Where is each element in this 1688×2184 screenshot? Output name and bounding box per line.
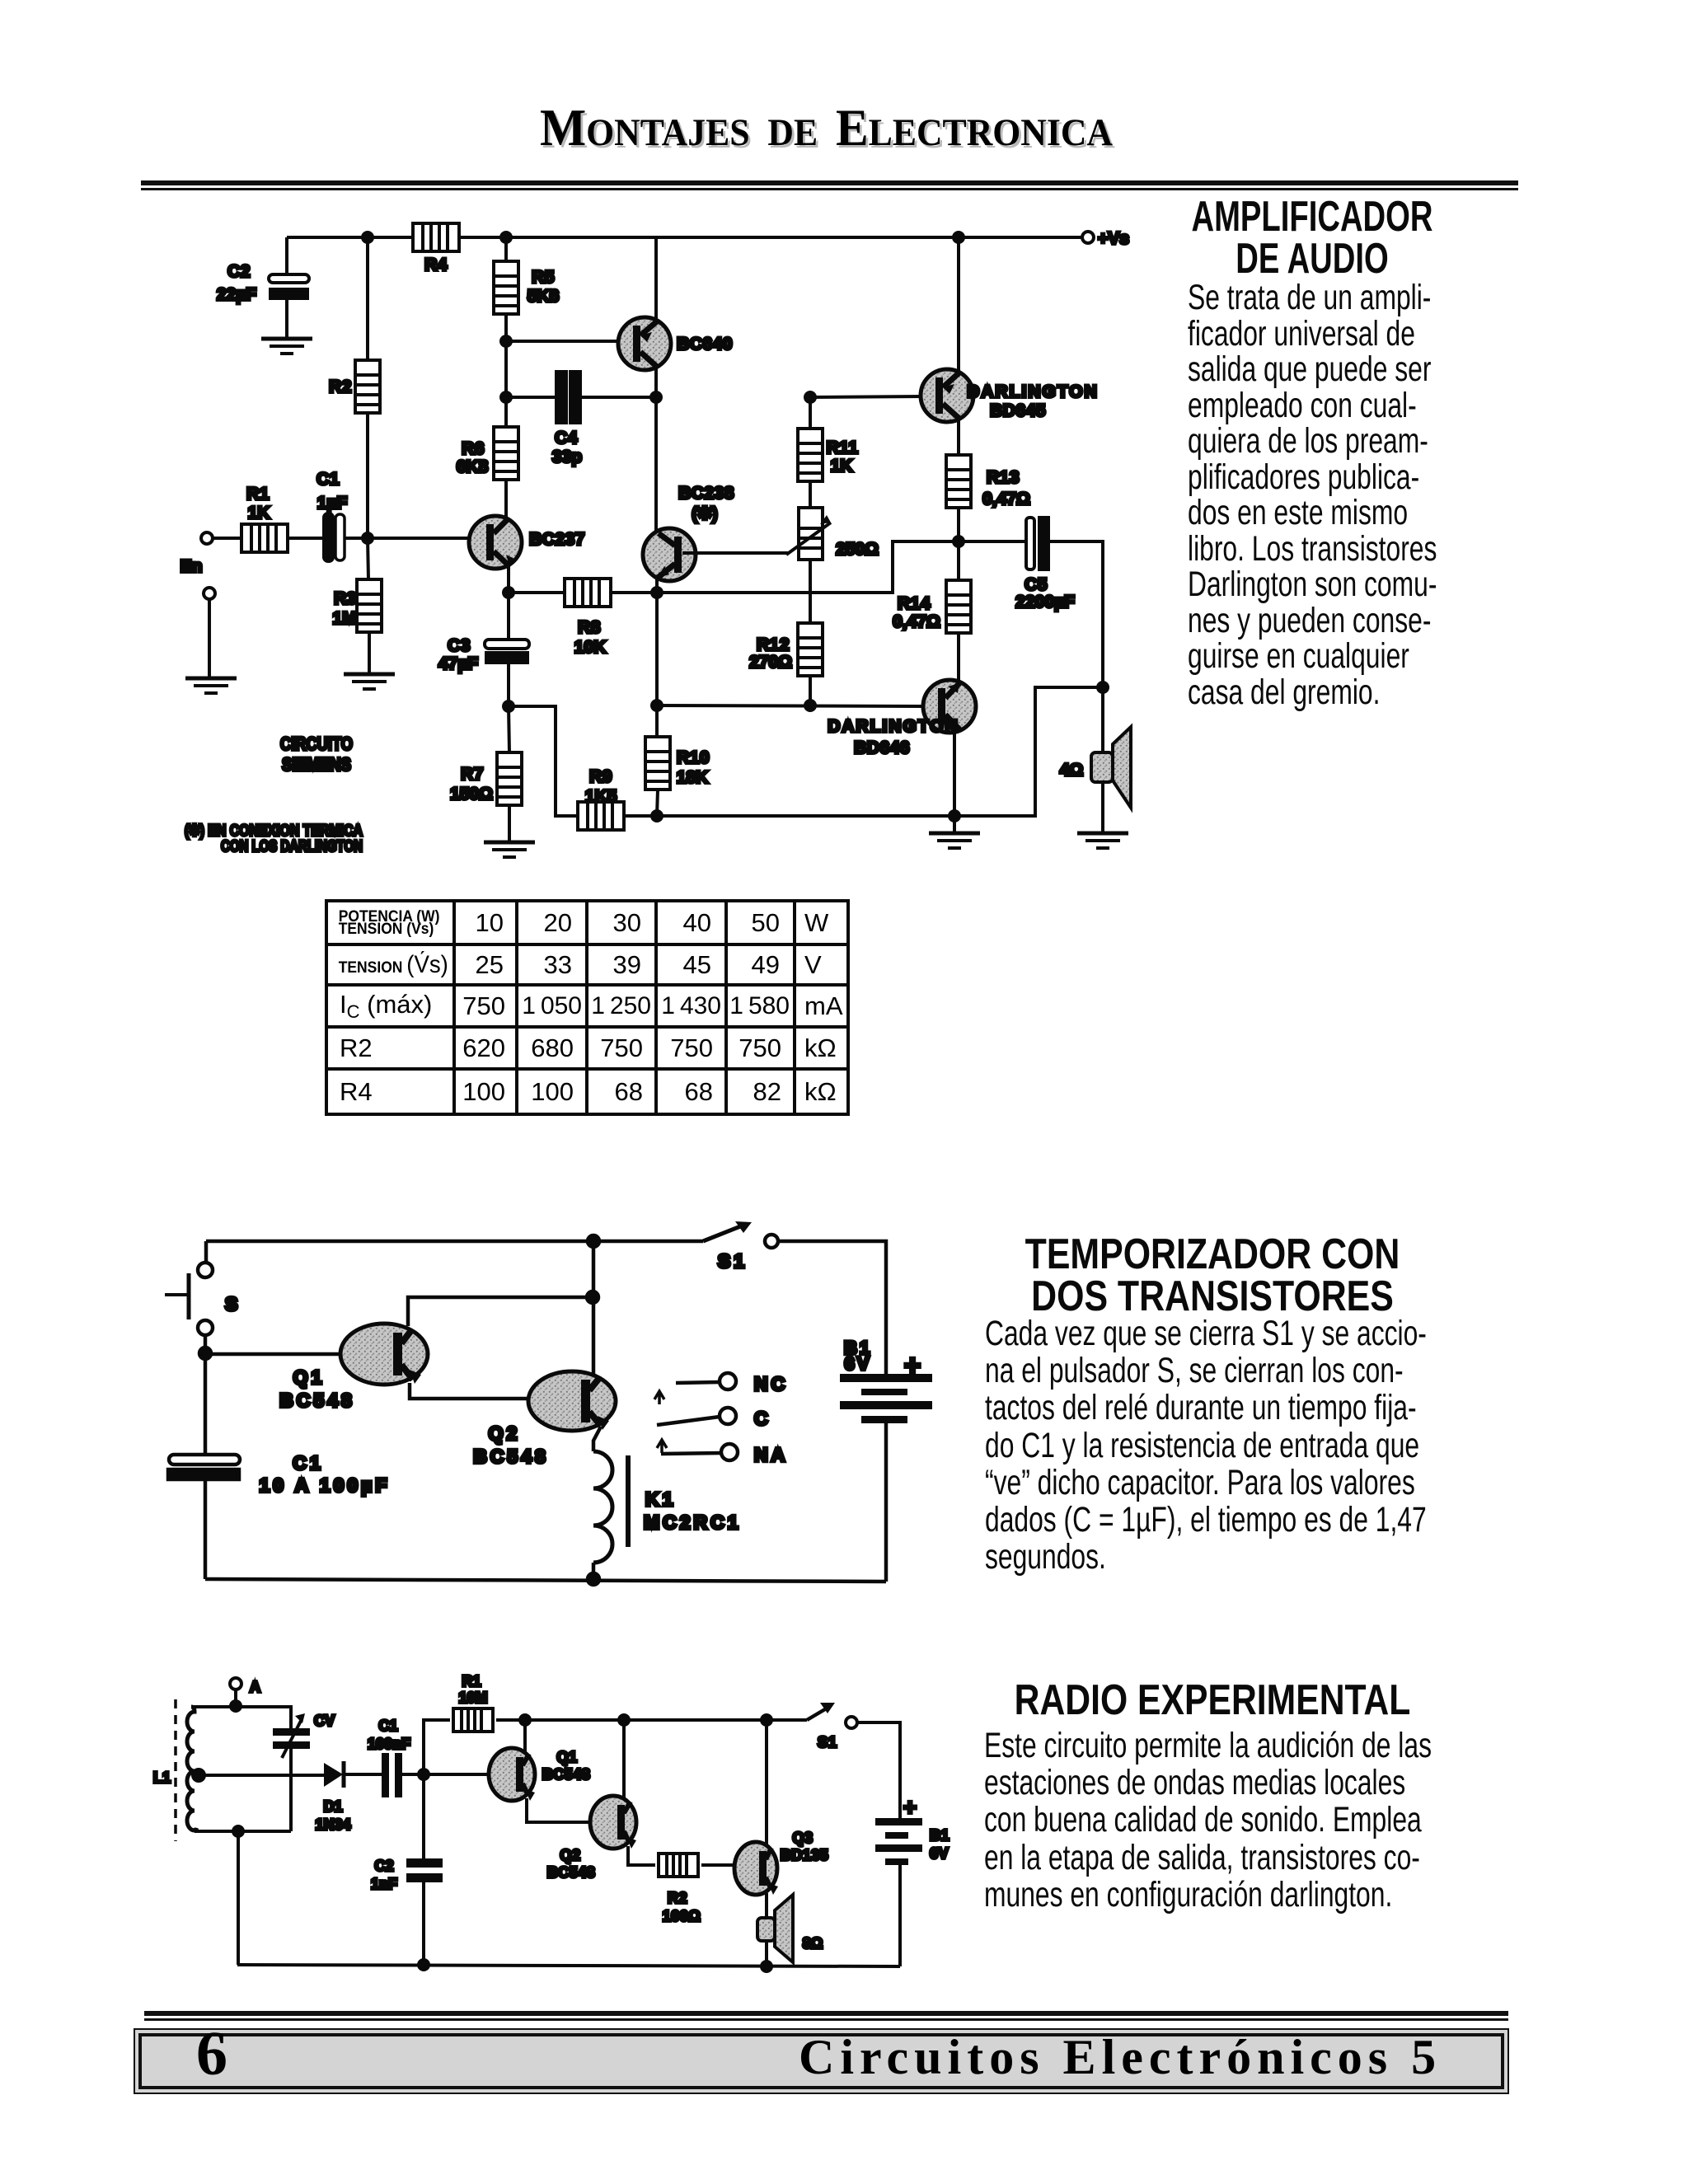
node R5 top bbox=[501, 232, 511, 242]
node Q1 base tap bbox=[199, 1347, 211, 1359]
node R12 bus left bbox=[652, 701, 662, 710]
svg-text:1nF: 1nF bbox=[371, 1876, 397, 1892]
capacitor C1 electrolytic bbox=[168, 1452, 390, 1496]
wire Q2 emitter to R2 bbox=[628, 1846, 655, 1865]
inductor L1 bbox=[153, 1699, 198, 1841]
wire tank top bbox=[191, 1707, 291, 1728]
data table potencia/tension bbox=[325, 899, 850, 1116]
ground (BD646) bbox=[929, 833, 980, 848]
resistor R4 bbox=[413, 223, 459, 274]
node tank bottom bbox=[233, 1826, 243, 1836]
transistor BC640 bbox=[618, 237, 733, 397]
resistor R7 bbox=[450, 752, 522, 805]
wire node to BC237 base bbox=[368, 537, 470, 540]
wire top node down to Q2 collector bbox=[592, 1241, 596, 1376]
wire BD646 collector bbox=[953, 730, 956, 832]
wire R3 to ground bbox=[368, 632, 371, 673]
wire C5 to speaker node bbox=[1048, 541, 1103, 687]
svg-text:Q2: Q2 bbox=[560, 1847, 580, 1863]
terminal +Vs bbox=[1082, 229, 1129, 248]
contact arrow upper bbox=[654, 1391, 664, 1404]
ground (speaker) bbox=[1077, 833, 1128, 848]
contact arrow lower bbox=[657, 1440, 667, 1453]
svg-text:10M: 10M bbox=[458, 1690, 487, 1706]
resistor R1 10M bbox=[453, 1673, 493, 1732]
wire En to R1 bbox=[213, 537, 241, 540]
wire R13 to node bbox=[957, 508, 960, 541]
node C3 bottom bbox=[504, 701, 513, 711]
wire left rail lower bbox=[204, 1353, 208, 1455]
wire Q1 emitter to Q2 base bbox=[410, 1383, 529, 1399]
node timer top bbox=[588, 1235, 599, 1247]
node BC640 collector bbox=[651, 392, 661, 402]
wire Q1 collector feedback bbox=[408, 1297, 593, 1326]
variable capacitor CV bbox=[273, 1713, 335, 1758]
label circuito siemens bbox=[280, 733, 353, 775]
trimmer 250 ohm bbox=[786, 508, 879, 560]
wire R12 to bus bbox=[809, 676, 812, 705]
wire bottom rail bbox=[205, 1579, 886, 1582]
wire BC238 emitter down bbox=[655, 578, 659, 593]
svg-text:CV: CV bbox=[314, 1713, 335, 1729]
diode D1 1N34 bbox=[315, 1761, 350, 1833]
wire timer top rail bbox=[206, 1240, 703, 1244]
wire R5 to node bbox=[504, 314, 508, 341]
node R11 top bbox=[805, 392, 815, 402]
svg-text:1N34: 1N34 bbox=[315, 1816, 350, 1833]
ground (R3) bbox=[344, 674, 395, 689]
wire R10 to bus bbox=[657, 790, 658, 816]
resistor R14 bbox=[893, 580, 971, 633]
node feedback bbox=[587, 1291, 598, 1303]
resistor R2 bbox=[329, 360, 380, 413]
node bottom rail bbox=[588, 1573, 599, 1585]
svg-text:BC548: BC548 bbox=[542, 1766, 591, 1783]
ground (C2) bbox=[261, 339, 312, 354]
wire R2 to node bbox=[366, 414, 369, 538]
wire R1 to C1 bbox=[288, 537, 324, 540]
resistor R13 bbox=[946, 455, 1030, 509]
terminal En input bbox=[181, 532, 213, 576]
svg-text:L1: L1 bbox=[153, 1769, 171, 1786]
svg-text:6V: 6V bbox=[930, 1845, 949, 1862]
svg-text:S1: S1 bbox=[818, 1734, 837, 1750]
wire relay to bottom rail bbox=[592, 1563, 596, 1579]
battery B1 6V radio bbox=[875, 1794, 949, 1865]
transistor Q3 BD135 bbox=[734, 1720, 828, 1895]
wire bus to BD646 base bbox=[657, 705, 924, 706]
ground (R7) bbox=[484, 842, 535, 857]
radio heading bbox=[1014, 1680, 1410, 1722]
wire R11 to trimmer bbox=[809, 481, 812, 508]
svg-text:+: + bbox=[903, 1794, 917, 1820]
svg-text:C1: C1 bbox=[378, 1718, 397, 1734]
node R12 bottom bbox=[805, 701, 815, 710]
wire down to R10 bbox=[655, 593, 659, 736]
capacitor C4 bbox=[552, 372, 582, 466]
wire S1 to battery bbox=[778, 1241, 886, 1374]
node output bbox=[954, 537, 964, 546]
wire node to R6 bbox=[504, 397, 508, 427]
svg-text:B1: B1 bbox=[930, 1827, 949, 1844]
relay contact C bbox=[657, 1408, 771, 1429]
wire D1 to C1 bbox=[345, 1773, 382, 1776]
svg-text:8Ω: 8Ω bbox=[803, 1935, 823, 1952]
wire R6 to BC237 bbox=[504, 480, 508, 518]
wire top rail radio bbox=[525, 1718, 807, 1722]
wire node to R7 bbox=[509, 706, 509, 752]
wire node to C4 bbox=[506, 396, 556, 399]
resistor R12 bbox=[749, 623, 823, 676]
svg-text:100Ω: 100Ω bbox=[663, 1908, 701, 1924]
capacitor C1 100nF bbox=[368, 1718, 410, 1797]
terminal A antenna bbox=[230, 1678, 260, 1706]
svg-text:BD135: BD135 bbox=[781, 1847, 829, 1863]
timer heading bbox=[1025, 1234, 1400, 1318]
wire emitter to R8 bbox=[509, 591, 565, 594]
node BD645 emitter rail bbox=[954, 232, 964, 242]
wire node to BC640 base bbox=[506, 340, 620, 343]
switch S1 bbox=[703, 1221, 778, 1272]
capacitor C2 1nF bbox=[371, 1774, 443, 1965]
resistor R1 bbox=[241, 485, 288, 552]
wire trimmer to R12 bbox=[809, 560, 812, 623]
footer rules bbox=[144, 2011, 1508, 2016]
node top rail R2 bbox=[363, 232, 373, 242]
ground (En) bbox=[185, 678, 237, 693]
transistor Q2 BC548 bbox=[547, 1720, 636, 1881]
wire BC238 base to 250 ohm wiper bbox=[682, 551, 789, 555]
node detector bbox=[419, 1769, 429, 1779]
svg-text:C2: C2 bbox=[374, 1858, 393, 1874]
capacitor C3 bbox=[438, 636, 529, 706]
svg-text:R2: R2 bbox=[668, 1890, 687, 1906]
wire node to C5 bbox=[959, 540, 1026, 543]
svg-text:Q1: Q1 bbox=[556, 1749, 577, 1765]
speaker 8 ohm bbox=[757, 1895, 823, 1962]
wire C3 branch bbox=[507, 593, 510, 640]
resistor R9 bbox=[578, 767, 624, 830]
node base BC237 bbox=[363, 533, 373, 543]
relay coil K1 bbox=[593, 1451, 742, 1563]
wire node to R14 bbox=[957, 541, 960, 580]
page number 6 bbox=[196, 2022, 227, 2085]
svg-text:D1: D1 bbox=[323, 1798, 342, 1815]
transistor BD646 darlington bbox=[828, 680, 976, 757]
svg-text:BC548: BC548 bbox=[547, 1864, 596, 1881]
battery B1 6V bbox=[840, 1338, 932, 1423]
terminal En lower bbox=[204, 588, 215, 599]
node speaker bottom bbox=[762, 1961, 771, 1971]
node C4 tap bbox=[501, 392, 511, 402]
node BC640 base bbox=[501, 336, 511, 346]
wire Q2 emitter to relay bbox=[593, 1427, 601, 1451]
resistor R5 bbox=[494, 261, 559, 314]
wire R8 to node bbox=[611, 591, 657, 594]
transistor BD645 darlington bbox=[921, 237, 1099, 455]
wire C4 to node bbox=[580, 396, 656, 399]
wire node down bbox=[504, 341, 508, 397]
resistor R2 100 ohm bbox=[659, 1854, 701, 1924]
wire CV down bbox=[289, 1749, 293, 1831]
wire R14 to BD646 bbox=[957, 633, 960, 682]
svg-text:R1: R1 bbox=[462, 1673, 481, 1690]
svg-text:100nF: 100nF bbox=[368, 1736, 410, 1752]
wire node right to R9 bbox=[509, 706, 578, 816]
wire tank bottom bbox=[195, 1830, 291, 1833]
wire feedback y719 bbox=[657, 541, 959, 593]
node Q3 collector top bbox=[762, 1715, 771, 1725]
wire button to node bbox=[204, 1335, 208, 1353]
node C2 bottom bbox=[419, 1960, 429, 1970]
resistor R8 bbox=[565, 579, 611, 657]
wire R1 to Q1 collector node bbox=[496, 1718, 525, 1722]
wire speaker to bottom rail bbox=[765, 1941, 768, 1966]
wire R9 to node bbox=[624, 814, 657, 818]
wire top rail bbox=[287, 236, 414, 239]
wire node down to R11 bbox=[809, 397, 812, 429]
wire node up to R1 bbox=[424, 1720, 450, 1774]
capacitor C1 bbox=[316, 470, 347, 561]
node antenna tap bbox=[231, 1701, 241, 1711]
wire BC237 emitter bbox=[507, 566, 510, 593]
transistor Q2 BC548 bbox=[473, 1371, 616, 1467]
node R8 right bbox=[652, 588, 662, 598]
node bottom bus left bbox=[652, 811, 662, 821]
wire bottom bus bbox=[657, 687, 1103, 816]
node emitter BC237 bbox=[504, 588, 513, 598]
wire node to R3 bbox=[368, 538, 368, 579]
relay contact NA bbox=[661, 1444, 788, 1465]
footer title bbox=[799, 2032, 1442, 2082]
svg-text:A: A bbox=[250, 1679, 260, 1695]
wire C1 to node bbox=[345, 537, 368, 540]
wire R2 branch bbox=[366, 237, 369, 359]
node Q1 collector bbox=[520, 1715, 530, 1725]
resistor R10 bbox=[645, 737, 710, 790]
wire tank bottom to rail bbox=[237, 1831, 240, 1965]
wire tap to D1 bbox=[195, 1774, 324, 1777]
resistor R6 bbox=[457, 427, 518, 480]
footer bar bbox=[134, 2028, 1509, 2094]
capacitor C2 bbox=[217, 237, 309, 337]
PAGE HEADER bbox=[540, 97, 1113, 158]
node L1 tap bbox=[193, 1769, 204, 1781]
wire left rail top bbox=[204, 1241, 209, 1263]
transistor Q1 BC548 bbox=[489, 1720, 590, 1801]
wire node to BD645 base bbox=[810, 396, 923, 397]
switch S1 radio bbox=[807, 1703, 857, 1750]
capacitor C5 bbox=[1015, 518, 1075, 612]
wire battery to bottom rail bbox=[898, 1865, 902, 1966]
wire Q3 emitter to speaker bbox=[765, 1893, 768, 1918]
transistor BC237 bbox=[469, 516, 585, 569]
label nota termica bbox=[185, 823, 363, 855]
wire Q1 emitter to Q2 base bbox=[527, 1798, 591, 1822]
wire rail to R5 bbox=[504, 237, 508, 261]
node bus BD646 bbox=[949, 811, 959, 821]
svg-text:Q3: Q3 bbox=[792, 1830, 813, 1846]
wire R2 to Q3 base bbox=[701, 1863, 736, 1867]
wire node to Q1 base bbox=[205, 1352, 341, 1357]
amplifier body text bbox=[1188, 280, 1437, 710]
resistor R11 bbox=[798, 429, 858, 481]
node Q2 collector top bbox=[619, 1715, 629, 1725]
amplifier heading bbox=[1191, 196, 1433, 280]
wire C1 to node bbox=[402, 1773, 490, 1776]
transistor BC238 bbox=[643, 397, 734, 581]
resistor R3 bbox=[332, 579, 382, 632]
pushbutton S bbox=[165, 1263, 239, 1335]
transistor Q1 BC548 bbox=[279, 1324, 428, 1411]
wire R7 to ground bbox=[508, 805, 511, 841]
node speaker top bbox=[1098, 682, 1108, 692]
timer body text bbox=[985, 1315, 1427, 1576]
wire bottom rail radio bbox=[237, 1965, 900, 1966]
wire lower terminal to ground bbox=[208, 599, 211, 677]
relay contact NC bbox=[676, 1373, 788, 1394]
wire S1 to battery bbox=[857, 1722, 900, 1818]
radio body text bbox=[984, 1727, 1432, 1914]
wire battery to bottom rail bbox=[884, 1423, 889, 1582]
wire C1 to bottom rail bbox=[204, 1479, 208, 1579]
speaker 4 ohm bbox=[1060, 687, 1131, 832]
